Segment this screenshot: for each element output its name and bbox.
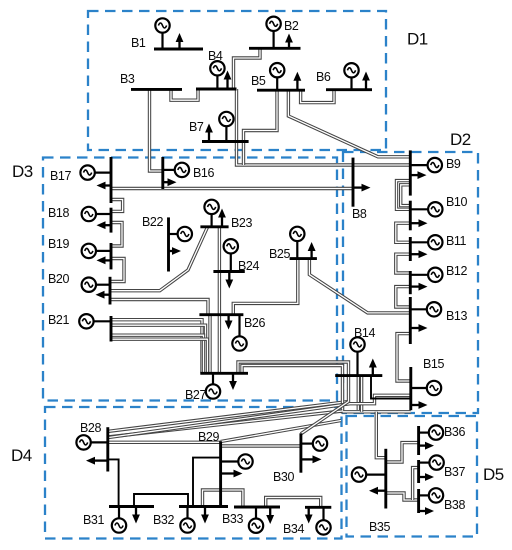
bus B34 [305, 506, 331, 509]
district D2 box [343, 152, 478, 413]
wire B32-B33 bracket [203, 490, 243, 507]
bus B8 [352, 158, 355, 207]
bus B27 [200, 372, 248, 375]
generator B37 [419, 455, 444, 469]
load arrow B28 [86, 457, 108, 465]
generator B10 [410, 202, 442, 216]
generator B30 [301, 436, 327, 450]
load arrow B26 [225, 315, 233, 330]
svg-text:B5: B5 [251, 74, 266, 88]
svg-text:B29: B29 [198, 430, 219, 444]
load arrow B16 [163, 178, 177, 186]
load arrow B18 [97, 221, 112, 229]
bus B9 [409, 150, 412, 195]
svg-text:B20: B20 [48, 272, 69, 286]
bus B24 [213, 270, 244, 273]
bus B26 [199, 313, 243, 316]
svg-text:B8: B8 [352, 207, 367, 221]
bus B23 [200, 225, 228, 228]
wire B28-B29 [108, 441, 221, 444]
wire B5-B6 link [301, 90, 334, 103]
wire B35 feed [376, 412, 386, 458]
svg-text:B23: B23 [231, 216, 252, 230]
svg-text:B33: B33 [222, 512, 243, 526]
bus B25 [290, 257, 317, 260]
wire B2-B4 link [234, 48, 261, 89]
svg-text:B15: B15 [423, 357, 444, 371]
generator B33 [249, 507, 263, 533]
svg-text:B30: B30 [273, 470, 294, 484]
wire B33-B34 bracket [266, 498, 321, 508]
generator B35 [352, 467, 386, 481]
bus B35 [384, 449, 387, 509]
generator B20 [82, 278, 110, 292]
wire B27-B15 long link [242, 366, 411, 412]
svg-text:B2: B2 [284, 19, 299, 33]
svg-text:B14: B14 [354, 326, 375, 340]
load arrow B17 [97, 182, 112, 190]
load arrow B6 [362, 72, 370, 90]
generator B7 [219, 112, 233, 142]
bus B11 [409, 237, 412, 261]
bus B6 [326, 88, 372, 91]
generator B17 [80, 165, 111, 179]
load arrow B8 [353, 184, 371, 192]
wire B18-B19 bracket [111, 223, 122, 247]
wire B28-B31 [108, 459, 119, 506]
bus B19 [110, 243, 113, 269]
wire B5-B9 diagonal [288, 90, 410, 157]
bus B13 [409, 297, 412, 344]
wire B29-B30 [221, 444, 301, 447]
svg-text:B17: B17 [50, 169, 71, 183]
generator B28 [76, 435, 107, 449]
svg-text:B31: B31 [83, 513, 104, 527]
svg-text:B7: B7 [189, 120, 204, 134]
bus B33 [234, 506, 280, 509]
bus B2 [249, 47, 301, 50]
svg-text:B36: B36 [444, 425, 465, 439]
load arrow B36 [419, 442, 434, 450]
generator B4 [210, 61, 224, 89]
bus B21 [110, 316, 113, 342]
bus B1 [154, 48, 203, 51]
svg-text:D1: D1 [407, 30, 428, 49]
generator B38 [419, 488, 444, 502]
generator B22 [169, 227, 193, 241]
bus B30 [299, 433, 302, 472]
svg-text:B1: B1 [131, 36, 146, 50]
generator B21 [79, 314, 111, 328]
svg-text:B34: B34 [283, 522, 304, 536]
wire B28 diagonal b [108, 411, 343, 437]
wire B14-B15 link [371, 376, 411, 399]
generator B23 [204, 200, 218, 227]
svg-text:B35: B35 [369, 520, 390, 534]
wire B13-B15 bracket [397, 334, 411, 381]
bus B17 [110, 157, 113, 203]
load arrow B10 [410, 219, 427, 227]
load arrow B13 [410, 324, 427, 332]
generator B1 [155, 18, 169, 49]
wire B5-B9 elbow [244, 90, 278, 165]
wire B25-B26 [233, 259, 297, 315]
load arrow B27 [229, 373, 237, 390]
wire B35-B36 [386, 443, 419, 462]
svg-text:B18: B18 [48, 206, 69, 220]
generator B16 [163, 163, 189, 177]
wire B26-B27 [208, 315, 211, 374]
district D5 box [347, 416, 478, 537]
bus B29 [219, 441, 222, 506]
wire B4-B7-B9 line [237, 89, 411, 165]
district D1 box [88, 11, 386, 150]
wire B25-B13 [309, 259, 410, 313]
generator B18 [82, 207, 111, 221]
wire B9-B10 bracket inner [401, 185, 411, 206]
generator B9 [410, 158, 442, 172]
generator B5 [270, 63, 284, 90]
wire B10-B11 bracket [396, 223, 411, 242]
bus B7 [202, 140, 249, 143]
bus B38 [417, 489, 420, 513]
wire B21-B27 a2 [111, 325, 206, 373]
wire B23-B27 [218, 227, 221, 373]
generator B11 [410, 235, 442, 249]
svg-text:D3: D3 [12, 162, 33, 181]
wire B12-B13 bracket [396, 287, 411, 307]
load arrow B29 [221, 470, 243, 478]
svg-text:D4: D4 [11, 446, 32, 465]
wire B20-B23 [110, 227, 208, 291]
load arrow B22 [169, 247, 182, 255]
wire B29 diagonal [221, 421, 341, 442]
generator B25 [290, 227, 304, 259]
bus B20 [109, 277, 112, 305]
load arrow B25 [308, 242, 316, 259]
svg-text:B4: B4 [208, 49, 223, 63]
wire B28-B15 [108, 395, 411, 437]
svg-text:B26: B26 [244, 316, 265, 330]
svg-text:B38: B38 [444, 498, 465, 512]
bus B16 [161, 157, 164, 189]
generator B12 [410, 268, 442, 282]
bus B3 [131, 88, 182, 91]
wire B9-B10 bracket outer [397, 181, 411, 210]
load arrow B24 [225, 272, 233, 289]
bus B10 [409, 201, 412, 231]
wire B20-B26 [110, 300, 208, 315]
bus B14 [335, 374, 382, 377]
svg-text:B32: B32 [153, 513, 174, 527]
wire B21-B27 a [111, 320, 202, 374]
generator B6 [344, 63, 358, 90]
svg-text:B24: B24 [238, 259, 259, 273]
wire B31-B32 bracket [134, 494, 188, 507]
wire B29-B32 [193, 458, 221, 507]
svg-text:B25: B25 [269, 247, 290, 261]
load arrow B35 [369, 487, 386, 495]
bus B4 [196, 88, 237, 91]
load arrow B5 [293, 72, 301, 91]
load arrow B19 [97, 256, 112, 264]
generator B14 [350, 337, 364, 375]
load arrow B32 [201, 507, 209, 524]
load arrow B20 [96, 291, 111, 299]
load arrow B4 [224, 71, 232, 90]
bus B5 [257, 89, 305, 92]
load arrow B7 [205, 124, 213, 142]
load arrow B11 [410, 250, 427, 258]
svg-text:D2: D2 [450, 130, 471, 149]
wire B35-B38 [386, 493, 419, 500]
load arrow B14 [369, 359, 377, 376]
svg-text:D5: D5 [483, 465, 504, 484]
generator B24 [224, 239, 238, 271]
generator B31 [112, 507, 126, 533]
load arrow B12 [410, 283, 427, 291]
wire B14 stub down b [360, 376, 363, 412]
svg-text:B37: B37 [444, 465, 465, 479]
district D4 box [45, 407, 342, 539]
bus B37 [417, 460, 420, 483]
bus B32 [179, 505, 228, 508]
svg-text:B16: B16 [193, 166, 214, 180]
generator B26 [232, 315, 246, 351]
load arrow B34 [305, 507, 313, 523]
svg-text:B22: B22 [142, 215, 163, 229]
generator B15 [411, 381, 441, 395]
svg-text:B12: B12 [446, 264, 467, 278]
svg-text:B3: B3 [120, 72, 135, 86]
wire B27-B14-B28 [108, 362, 349, 431]
generator B29 [221, 454, 253, 468]
load arrow B37 [419, 473, 434, 481]
generator B36 [419, 425, 444, 439]
generator B34 [316, 507, 330, 534]
district D3 box [43, 158, 337, 401]
generator B13 [410, 302, 441, 316]
svg-text:B27: B27 [185, 388, 206, 402]
generator B2 [266, 17, 280, 49]
generator B32 [180, 507, 194, 533]
load arrow B30 [301, 455, 322, 463]
bus B36 [417, 426, 420, 455]
svg-text:B28: B28 [80, 421, 101, 435]
wire B37 branch [413, 468, 419, 500]
wire B30-B14 diagonal [301, 402, 349, 434]
load arrow B38 [419, 507, 434, 515]
load arrow B15 [411, 401, 428, 409]
svg-text:B13: B13 [446, 309, 467, 323]
load arrow B33 [266, 507, 274, 524]
bus B15 [409, 367, 412, 410]
wire B21-B27 b [111, 335, 204, 373]
wire B11-B12 bracket [396, 254, 411, 273]
svg-text:B21: B21 [48, 313, 69, 327]
bus B12 [409, 271, 412, 294]
bus B28 [106, 427, 109, 471]
svg-text:B9: B9 [446, 157, 461, 171]
wire B19-B20 bracket [110, 259, 124, 282]
load arrow B23 [218, 209, 226, 227]
generator B27 [206, 373, 220, 398]
load arrow B9 [410, 171, 426, 179]
generator B19 [82, 244, 111, 258]
svg-text:B19: B19 [48, 237, 69, 251]
load arrow B1 [176, 33, 184, 49]
bus B22 [167, 217, 170, 271]
svg-text:B6: B6 [316, 70, 331, 84]
wire B14 stub down [357, 376, 360, 410]
wire B3-B4 link [171, 89, 198, 100]
wire B17-B18 bracket [111, 200, 123, 212]
load arrow B2 [285, 34, 293, 49]
wire B21-B27 b2 [111, 339, 208, 373]
bus B31 [109, 505, 154, 508]
wire B17-B8 line [111, 187, 353, 190]
svg-text:B10: B10 [446, 195, 467, 209]
svg-text:B11: B11 [446, 234, 467, 248]
load arrow B31 [132, 507, 140, 524]
bus B18 [110, 208, 113, 233]
wire B3-B16 [150, 89, 163, 171]
